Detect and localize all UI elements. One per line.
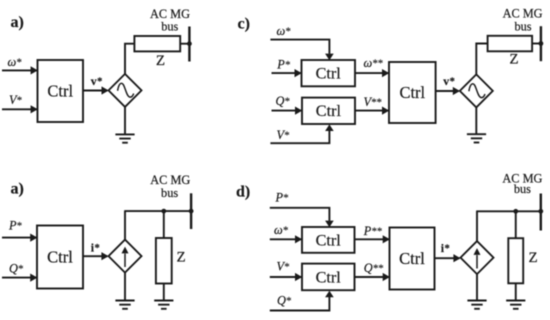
wire source bottom to ground (panel d) [476,274,478,300]
svg-text:V*: V* [277,128,290,142]
AC MG bus bar (bottom-left) [190,193,192,229]
current source CS2 (diamond with up arrow) [461,241,494,274]
svg-text:a): a) [11,180,24,197]
voltage source VS1 (diamond with sine) [109,74,142,107]
current source CS1 (diamond with up arrow) [109,240,142,273]
junction dot at bus (panel d) [538,209,543,214]
wire source top to impedance Z (panel c) [476,44,487,75]
wire i* output with arrowhead (panel d) [435,254,461,262]
wire v* output with arrowhead (panel c) [436,87,460,95]
wire Z bottom to ground [163,284,165,301]
wire V* input with arrowhead [2,105,38,113]
wire source top to node (panel d) [476,211,478,241]
wire source bottom to ground (panel c) [475,107,477,134]
AC MG bus bar (panel a top) [188,27,190,62]
controller block Ctrl2 (panel c) [302,98,355,124]
wire P* bending down into Ctrl1 with arrowhead [270,208,334,227]
svg-text:ω*: ω* [277,24,291,38]
svg-text:Q*: Q* [277,293,292,307]
svg-text:Ctrl: Ctrl [399,249,425,268]
wire ω* input with arrowhead [270,235,302,243]
svg-text:P**: P** [363,224,382,238]
svg-text:Ctrl: Ctrl [47,82,73,101]
svg-text:V*: V* [9,93,22,107]
label AC MG bus (bottom-left) [150,173,190,200]
main controller block Ctrl (panel d) [390,228,435,290]
ground under source (bottom-left) [115,301,134,309]
ground under source (panel d) [467,301,486,309]
wire Ctrl2 output to big Ctrl with arrowhead [355,107,389,115]
svg-text:Z: Z [156,53,165,69]
controller block Ctrl (panel a top) [38,60,84,122]
ground under Z (bottom-left) [154,301,173,309]
wire v* output with arrowhead [83,86,109,94]
wire Ctrl1 output to big Ctrl with arrowhead [355,69,389,77]
junction dot above Z (panel d) [513,209,518,214]
wire i* output with arrowhead [83,252,109,260]
svg-text:v*: v* [91,74,103,88]
wire Z bottom to ground (panel d) [515,283,517,300]
svg-text:Ctrl: Ctrl [316,268,342,286]
svg-text:ω**: ω** [364,56,384,70]
svg-text:V*: V* [277,260,290,274]
ground (panel c) [467,134,486,142]
wire source top to impedance Z [125,44,134,74]
wire source top to node [124,211,126,240]
AC MG bus bar (panel c) [540,26,542,61]
svg-text:ω*: ω* [8,55,22,69]
svg-text:Ctrl: Ctrl [47,248,73,267]
svg-text:P*: P* [8,219,22,233]
label AC MG bus (panel d) [502,171,542,195]
svg-text:Z: Z [509,51,518,67]
label AC MG bus (panel c) [503,6,543,33]
wire Q* input with arrowhead [2,274,37,282]
svg-text:bus: bus [161,186,178,200]
svg-text:Z: Z [529,250,538,266]
ground under Z (panel d) [506,301,525,309]
svg-text:Q*: Q* [9,261,24,275]
svg-text:P*: P* [276,58,290,72]
svg-text:Ctrl: Ctrl [399,83,425,102]
svg-text:a): a) [11,14,24,31]
svg-text:Ctrl: Ctrl [316,65,342,83]
svg-text:V**: V** [364,95,382,109]
svg-text:Q*: Q* [276,94,291,108]
wire ω* bending down into Ctrl1 with arrowhead [270,40,333,61]
wire Q* bending up into Ctrl2 with arrowhead [270,291,334,311]
svg-text:bus: bus [514,19,531,33]
wire P* input with arrowhead [2,234,37,242]
wire Ctrl1 output to big Ctrl with arrowhead (panel d) [355,235,390,243]
svg-text:bus: bus [514,182,531,196]
label AC MG bus [150,7,190,34]
wire node down to impedance Z (panel d) [515,211,517,238]
impedance Z vertical (panel d) [508,238,523,283]
svg-text:P*: P* [275,190,289,204]
junction dot at bus (panel c) [539,41,544,46]
wire source bottom to ground (bottom-left) [124,273,126,301]
wire Q* input with arrowhead [272,107,303,115]
svg-text:Z: Z [177,250,186,266]
main controller block Ctrl (panel c) [389,62,436,123]
impedance Z vertical (bottom-left) [156,238,172,284]
junction dot above Z [161,209,166,214]
controller block Ctrl1 (panel d) [302,227,355,253]
wire node down to impedance Z [163,211,165,238]
svg-text:Ctrl: Ctrl [316,102,342,120]
wire Z to bus (panel c) [532,43,541,45]
controller block Ctrl1 (panel c) [302,60,356,86]
wire V* input with arrowhead (panel d) [270,273,302,281]
controller block Ctrl (bottom-left) [37,226,83,289]
svg-text:d): d) [236,183,250,200]
wire Z to bus [180,43,189,45]
junction dot at bus [187,41,192,46]
svg-text:i*: i* [91,240,100,254]
junction dot at bus (bottom-left) [189,209,194,214]
wire Ctrl2 output to big Ctrl with arrowhead (panel d) [355,273,390,281]
impedance Z (panel c) [488,36,532,52]
svg-text:Q**: Q** [364,261,384,275]
voltage source VS2 (diamond with sine) [460,74,493,107]
svg-text:bus: bus [161,19,178,33]
impedance Z (panel a top) [134,36,180,51]
svg-text:i*: i* [441,241,450,255]
svg-text:v*: v* [443,74,455,88]
wire source bottom to ground [124,107,126,135]
wire ω* input with arrowhead [2,66,38,74]
wire V* bending up into Ctrl2 with arrowhead [270,124,333,143]
controller block Ctrl2 (panel d) [302,264,355,291]
svg-text:AC MG: AC MG [503,6,543,20]
AC MG bus bar (panel d) [540,194,542,231]
svg-text:ω*: ω* [274,223,288,237]
svg-text:c): c) [238,15,250,32]
wire node to bus (bottom-left) [124,210,191,212]
wire node to bus (panel d) [476,210,541,212]
wire P* input with arrowhead [272,69,302,77]
svg-text:Ctrl: Ctrl [316,231,342,249]
ground (panel a top) [115,134,134,142]
